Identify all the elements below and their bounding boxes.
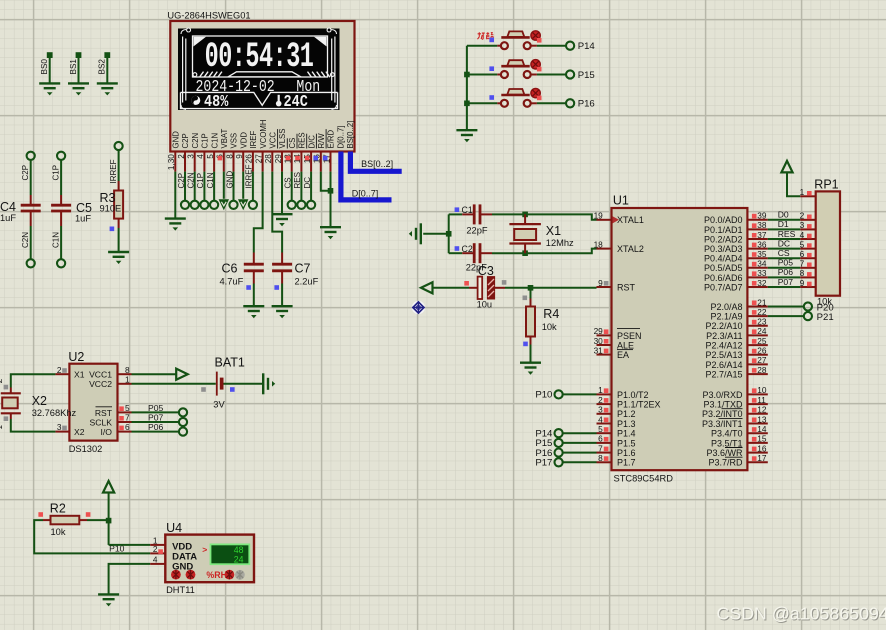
RP1 pin 5 stub <box>800 239 816 249</box>
label BS0 <box>40 59 49 75</box>
terminal RES node <box>297 201 305 209</box>
label P07 net <box>148 412 164 422</box>
label R3 value <box>100 204 122 214</box>
label C2 value <box>466 262 488 272</box>
U4 display arrow <box>202 544 207 554</box>
svg-text:27: 27 <box>757 355 767 365</box>
svg-text:48: 48 <box>234 545 244 555</box>
wire R3 to ground <box>118 219 120 252</box>
wire GND pin1 <box>174 172 176 219</box>
node BS0 wire <box>47 52 53 83</box>
label D0 net <box>778 210 789 220</box>
U1 pin name P1.5 <box>617 438 636 448</box>
U1 pin 15 stub <box>747 434 767 444</box>
svg-text:22pF: 22pF <box>466 226 488 236</box>
terminal P05 node <box>179 408 187 416</box>
U4 pin name GND <box>172 562 193 573</box>
svg-text:RST: RST <box>617 282 636 292</box>
svg-text:D0: D0 <box>778 210 789 220</box>
svg-text:2.2uF: 2.2uF <box>295 277 319 287</box>
svg-text:P07: P07 <box>778 277 794 287</box>
svg-text:4: 4 <box>196 154 205 159</box>
wire P1.0 to terminal <box>563 393 597 395</box>
svg-text:7: 7 <box>800 259 805 269</box>
label RES net <box>293 172 302 188</box>
svg-text:P3.3/INT1: P3.3/INT1 <box>702 419 743 429</box>
svg-text:XTAL1: XTAL1 <box>617 215 644 225</box>
ground below display pin1 <box>165 219 186 231</box>
svg-text:%RH: %RH <box>206 570 227 580</box>
svg-text:P16: P16 <box>578 99 595 110</box>
label U1 <box>613 194 629 208</box>
wire C1 right <box>480 213 525 215</box>
bus BS[0..2] <box>350 152 401 172</box>
label R2 value <box>51 527 66 537</box>
U1 pin name P3.6/WR <box>706 448 743 458</box>
label C7 <box>295 262 311 276</box>
wire C2P to terminal <box>184 172 186 201</box>
svg-text:VCC1: VCC1 <box>89 370 112 380</box>
capacitor C7 <box>272 264 292 271</box>
U2 pin name SCLK <box>90 417 113 427</box>
label X2 <box>32 394 47 408</box>
U1 pin 33 stub <box>747 268 767 278</box>
svg-text:UG-2864HSWEG01: UG-2864HSWEG01 <box>167 11 250 21</box>
svg-text:10: 10 <box>757 385 767 395</box>
junction X1 bottom <box>522 250 528 256</box>
U1 pin 27 stub <box>747 355 767 365</box>
svg-text:1uF: 1uF <box>0 213 16 223</box>
state square RST wire b <box>523 296 528 301</box>
label BS1 <box>69 59 78 75</box>
terminal C1P node <box>57 152 65 160</box>
svg-text:E/RD: E/RD <box>327 130 336 149</box>
terminal P06 node <box>179 428 187 436</box>
U2 pin 3 stub <box>55 422 69 432</box>
svg-text:P1.3: P1.3 <box>617 419 636 429</box>
U1 pin name P0.2/AD2 <box>704 234 743 244</box>
svg-text:29: 29 <box>274 154 283 164</box>
svg-text:P21: P21 <box>817 312 834 323</box>
U1 pin 28 stub <box>747 365 767 375</box>
OLED date text <box>196 79 275 97</box>
U1 pin name P2.2/A10 <box>705 321 742 331</box>
wire C2 left <box>449 252 475 254</box>
RP1 pin 1 stub <box>800 187 816 197</box>
wire RST to R4 <box>530 288 532 307</box>
wire C3 right <box>495 287 531 289</box>
label C1 value <box>466 226 488 236</box>
U1 pin name P1.1/T2EX <box>617 400 661 410</box>
wire C2 to XTAL2 <box>525 249 596 254</box>
svg-text:910E: 910E <box>100 204 122 214</box>
U1 pin name PSEN <box>617 329 642 341</box>
U1 pin 5 stub <box>597 424 612 434</box>
terminal P14 node <box>566 42 574 50</box>
bus D[0..7] <box>341 152 392 200</box>
svg-text:26: 26 <box>757 346 767 356</box>
svg-text:6: 6 <box>125 422 130 432</box>
state square R2 right <box>86 512 91 517</box>
svg-text:P1.6: P1.6 <box>617 448 636 458</box>
U1 pin 11 stub <box>747 395 767 405</box>
U1 pin name P2.6/A14 <box>705 360 742 370</box>
svg-text:2: 2 <box>57 365 62 375</box>
OLED pin stubs <box>175 152 330 172</box>
U1 pin name EA <box>617 350 629 360</box>
svg-text:DHT11: DHT11 <box>166 585 195 595</box>
svg-text:C2N: C2N <box>21 232 30 248</box>
terminal DC node <box>307 201 315 209</box>
RP1 pin 4 stub <box>800 230 816 240</box>
U1 pin name P3.3/INT1 <box>702 419 743 429</box>
svg-text:2: 2 <box>800 211 805 221</box>
svg-text:P05: P05 <box>778 258 794 268</box>
label C1N net below display <box>206 172 215 188</box>
label DC net <box>303 177 312 189</box>
svg-text:U4: U4 <box>166 521 182 535</box>
U1 pin name P3.0/RXD <box>702 390 743 400</box>
svg-text:P0.5/AD5: P0.5/AD5 <box>704 263 743 273</box>
state square C2 <box>455 246 460 251</box>
crystal X1 <box>509 214 541 253</box>
ground BS1 <box>68 83 89 95</box>
U1 pin name XTAL2 <box>617 244 644 254</box>
U1 pin name P0.7/AD7 <box>704 282 743 292</box>
U2 pin 1 stub <box>118 374 132 384</box>
label P21 <box>817 312 834 323</box>
label X2 value <box>32 408 77 418</box>
svg-text:38: 38 <box>757 220 767 230</box>
label P14 terminal <box>535 429 553 440</box>
ground BS0 <box>39 83 60 95</box>
U1 pin name P1.7 <box>617 458 636 468</box>
U1 pin 18 stub <box>594 239 612 249</box>
svg-text:1uF: 1uF <box>75 214 91 224</box>
wire P1.7 to terminal <box>563 461 597 463</box>
U1 pin name P0.6/AD6 <box>704 273 743 283</box>
bus label D[0..7] <box>352 188 379 198</box>
U1 pin 23 stub <box>747 317 767 327</box>
svg-text:BAT1: BAT1 <box>215 356 245 370</box>
svg-text:GND: GND <box>172 131 181 149</box>
label R3 <box>100 191 116 205</box>
wire C1C2 left rail <box>448 214 450 253</box>
state square R3 <box>110 227 115 232</box>
label DS1302 <box>69 444 103 454</box>
wire VDD pin9 <box>242 172 244 199</box>
wire X2 bottom <box>11 413 56 431</box>
svg-text:RP1: RP1 <box>814 178 838 192</box>
wire C7 to ground <box>281 271 283 306</box>
label P06 net <box>778 267 794 277</box>
power arrow RP1 <box>781 161 792 173</box>
OLED time text 00:54:31 <box>205 37 314 77</box>
U1 pin name P0.1/AD1 <box>704 225 743 235</box>
svg-text:C1P: C1P <box>201 133 210 148</box>
label C2N net <box>21 232 30 248</box>
svg-text:13: 13 <box>757 414 767 424</box>
svg-text:P3.5/T1: P3.5/T1 <box>711 438 743 448</box>
U2 pin name VCC1 <box>89 370 112 380</box>
label BS2 <box>98 59 107 75</box>
wire P1.4 to terminal <box>563 432 597 434</box>
label C6 <box>222 262 238 276</box>
U1 pin 32 stub <box>747 278 767 288</box>
state square button1 <box>489 38 494 43</box>
OLED pin names <box>172 119 356 148</box>
wire P2.0 to terminal <box>768 306 804 308</box>
svg-text:16: 16 <box>757 443 767 453</box>
svg-text:P05: P05 <box>148 403 164 413</box>
U1 pin 4 stub <box>597 414 612 424</box>
U4 indicator 1 <box>171 570 181 580</box>
wire RP1 pin1 to power <box>787 172 800 196</box>
wire E/RD pin17 <box>330 172 332 228</box>
svg-text:P3.0/RXD: P3.0/RXD <box>702 390 743 400</box>
svg-text:P2.2/A10: P2.2/A10 <box>705 321 742 331</box>
U1 pin 16 stub <box>747 443 767 453</box>
svg-text:3: 3 <box>187 154 196 159</box>
label C5 value <box>75 214 91 224</box>
wire R2 left to DATA <box>34 520 150 553</box>
U1 pin name P1.4 <box>617 429 636 439</box>
wire C1N to terminal <box>213 172 215 201</box>
svg-text:P2.7/A15: P2.7/A15 <box>705 370 742 380</box>
U2 pin 7 stub <box>118 413 132 423</box>
label button function GongNeng <box>478 32 494 39</box>
capacitor C5 <box>51 205 71 211</box>
wire C2P <box>30 160 32 206</box>
state square R4 <box>523 342 528 347</box>
OLED clock panel frame <box>193 36 328 77</box>
svg-text:7: 7 <box>598 443 603 453</box>
wire C2N to terminal <box>194 172 196 201</box>
state square C6 <box>246 285 251 290</box>
svg-text:P2.4/A12: P2.4/A12 <box>705 341 742 351</box>
label U4 <box>166 521 182 535</box>
svg-text:P3.1/TXD: P3.1/TXD <box>703 400 743 410</box>
state square button3 <box>489 95 494 100</box>
svg-text:P06: P06 <box>778 267 794 277</box>
svg-text:P1.5: P1.5 <box>617 438 636 448</box>
wire U2 to P07 <box>132 421 179 423</box>
svg-text:5: 5 <box>206 154 215 159</box>
label STC89C54RD <box>614 474 674 484</box>
power arrow RST left <box>421 282 433 293</box>
svg-text:2: 2 <box>598 395 603 405</box>
capacitor C4 <box>21 205 41 211</box>
svg-text:D/C: D/C <box>307 135 316 149</box>
wire IRREF to R3 <box>118 150 120 190</box>
svg-text:8: 8 <box>800 268 805 278</box>
U1 pin name P1.3 <box>617 419 636 429</box>
U1 pin name ALE <box>617 340 634 350</box>
svg-text:U2: U2 <box>68 350 84 364</box>
terminal IRREF node top <box>115 142 123 150</box>
svg-text:VCOMH: VCOMH <box>259 119 268 148</box>
svg-text:D1: D1 <box>778 219 789 229</box>
node origin marker <box>412 301 425 314</box>
svg-text:3: 3 <box>800 220 805 230</box>
label C1P net <box>52 165 61 181</box>
wire VDD row <box>109 544 151 546</box>
svg-text:14: 14 <box>757 424 767 434</box>
svg-text:P14: P14 <box>578 41 596 52</box>
label X1 <box>546 224 561 238</box>
U4 pin 2 stub <box>150 544 165 554</box>
U1 XTAL1 clock marker <box>613 216 620 223</box>
svg-text:ALE: ALE <box>617 340 634 350</box>
U1 pin name P2.5/A13 <box>705 350 742 360</box>
svg-text:VSS: VSS <box>230 133 239 149</box>
svg-text:C4: C4 <box>0 200 16 214</box>
wire P0.1 to RP1 <box>768 228 800 230</box>
RP1 pin 7 stub <box>800 259 816 269</box>
svg-text:D[0..7]: D[0..7] <box>352 188 379 198</box>
svg-text:34: 34 <box>757 259 767 269</box>
svg-text:C1P: C1P <box>52 165 61 181</box>
terminal C2P node <box>27 152 35 160</box>
U1 pin name P2.3/A11 <box>706 331 742 341</box>
svg-text:30: 30 <box>594 336 604 346</box>
U1 pin 1 stub <box>597 385 612 395</box>
svg-text:P06: P06 <box>148 422 164 432</box>
svg-text:P1.0/T2: P1.0/T2 <box>617 390 649 400</box>
label C5 <box>76 201 92 215</box>
OLED temperature value <box>284 94 308 111</box>
svg-text:17: 17 <box>757 453 767 463</box>
junction R/W-E/RD <box>328 188 334 194</box>
svg-text:P07: P07 <box>148 412 164 422</box>
U1 pin name P0.5/AD5 <box>704 263 743 273</box>
svg-text:RES: RES <box>293 172 302 188</box>
svg-text:39: 39 <box>757 211 767 221</box>
svg-text:RES: RES <box>778 229 796 239</box>
svg-text:4: 4 <box>800 230 805 240</box>
U4 pin name DATA <box>172 552 197 563</box>
wire C1P to terminal <box>203 172 205 201</box>
svg-text:P0.1/AD1: P0.1/AD1 <box>704 225 743 235</box>
terminal CS node <box>288 201 296 209</box>
svg-text:P1.7: P1.7 <box>617 458 636 468</box>
label C6 value <box>220 277 244 287</box>
svg-text:12: 12 <box>757 405 767 415</box>
U2 pin 8 stub <box>118 365 132 375</box>
wire P0.7 to RP1 <box>768 286 800 288</box>
svg-text:8: 8 <box>225 154 234 159</box>
OLED bottom frame <box>181 92 338 108</box>
terminal P20 node <box>804 302 812 310</box>
label C2N net below display <box>187 172 196 188</box>
svg-text:9: 9 <box>800 278 805 288</box>
RP1 pin 3 stub <box>800 220 816 230</box>
U1 pin 24 stub <box>747 326 767 336</box>
U2 pin name I/O <box>101 427 113 437</box>
capacitor C2 <box>474 243 480 263</box>
state square C7 <box>274 285 279 290</box>
OLED humidity icon <box>191 96 200 105</box>
wire C1 left <box>449 213 475 215</box>
U1 pin name P2.1/A9 <box>710 312 742 322</box>
svg-text:6: 6 <box>598 434 603 444</box>
wire P0.2 to RP1 <box>768 238 800 240</box>
label IRREF net left <box>109 159 118 183</box>
svg-text:R4: R4 <box>543 307 559 321</box>
svg-text:P0.4/AD4: P0.4/AD4 <box>704 254 743 264</box>
wire C2 right <box>480 252 525 254</box>
U1 pin name P3.1/TXD <box>703 400 743 410</box>
label C2 <box>462 244 473 254</box>
terminal P14 node left <box>555 429 563 437</box>
state square RST wire a <box>502 280 507 285</box>
U1 pin 9 stub <box>597 278 612 288</box>
svg-text:P3.6/WR: P3.6/WR <box>706 448 743 458</box>
U1 pin name P1.2 <box>617 409 636 419</box>
label RES net <box>778 229 796 239</box>
svg-text:BS2: BS2 <box>98 59 107 75</box>
U4 indicator 3 <box>225 570 235 580</box>
U1 pin 14 stub <box>747 424 767 434</box>
svg-text:5: 5 <box>598 424 603 434</box>
svg-text:24: 24 <box>757 326 767 336</box>
label X1 value <box>546 238 574 248</box>
label C4 value <box>0 213 16 223</box>
U1 pin name P3.5/T1 <box>711 438 743 448</box>
svg-text:VLSS: VLSS <box>278 129 287 149</box>
svg-text:3V: 3V <box>213 400 225 410</box>
svg-text:CS: CS <box>778 248 790 258</box>
svg-text:R/W: R/W <box>317 133 326 149</box>
svg-text:VBAT: VBAT <box>220 128 229 148</box>
terminal P07 node <box>179 418 187 426</box>
U1 pin name P3.2/INT0 <box>702 409 743 419</box>
junction rail button2 <box>464 72 470 78</box>
U4 pin 1 stub <box>150 536 165 546</box>
svg-text:3: 3 <box>598 405 603 415</box>
svg-text:2: 2 <box>153 544 158 554</box>
terminal P17 node left <box>555 458 563 466</box>
label P16 <box>578 99 595 110</box>
svg-text:23: 23 <box>757 317 767 327</box>
svg-text:10k: 10k <box>51 527 66 537</box>
state square BAT1 right <box>230 387 235 392</box>
ground R4 <box>520 363 541 375</box>
junction R2 <box>106 518 112 524</box>
terminal P15 node left <box>555 439 563 447</box>
label C1 <box>462 205 473 215</box>
svg-text:28: 28 <box>757 365 767 375</box>
label CS net <box>284 177 293 188</box>
ground R3 <box>108 252 129 264</box>
resistor R4 <box>526 307 535 337</box>
label P15 terminal <box>535 438 552 449</box>
wire VSS pin8 <box>233 172 235 201</box>
label P20 <box>817 302 834 313</box>
U1 pin 25 stub <box>747 336 767 346</box>
U1 pin 7 stub <box>597 443 612 453</box>
terminal P21 node <box>804 312 812 320</box>
U4 display <box>210 544 251 566</box>
wire C1 to XTAL1 <box>525 214 596 219</box>
svg-text:C2P: C2P <box>181 133 190 148</box>
svg-text:31: 31 <box>594 345 604 355</box>
terminal VSS node <box>229 201 237 209</box>
wire VLSS pin29 <box>281 172 283 215</box>
svg-text:BS1: BS1 <box>69 59 78 75</box>
svg-text:C1N: C1N <box>210 133 219 149</box>
U2 pin name X1 <box>74 370 85 380</box>
